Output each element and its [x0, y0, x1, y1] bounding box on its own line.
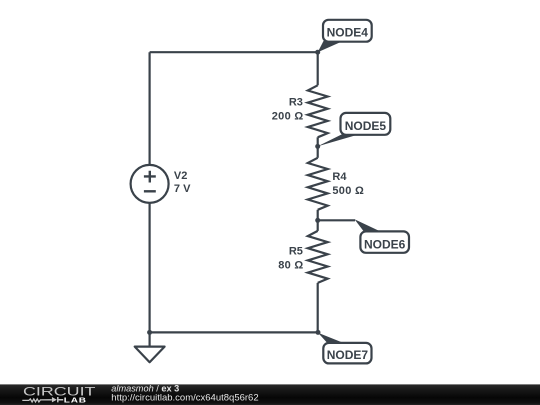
logo diode: [52, 397, 57, 402]
svg-text:R4: R4: [332, 171, 347, 183]
svg-text:500 Ω: 500 Ω: [332, 185, 364, 197]
svg-text:R5: R5: [289, 245, 303, 257]
svg-text:7 V: 7 V: [174, 183, 191, 195]
svg-text:NODE5: NODE5: [345, 119, 387, 133]
flag tail NODE5: [318, 134, 362, 147]
svg-text:NODE7: NODE7: [327, 348, 369, 362]
node flag box NODE7: [323, 343, 371, 364]
wire left vertical upper: [149, 52, 151, 165]
wire left vertical lower: [149, 203, 151, 333]
node D junction dot bottom right: [316, 330, 321, 335]
svg-text:NODE6: NODE6: [364, 238, 406, 252]
node C junction dot R4/R5: [315, 218, 320, 223]
wire R3 to node5 junction: [317, 137, 319, 158]
wire right top segment: [317, 52, 319, 85]
node E junction dot ground: [147, 330, 152, 335]
node flag box NODE4: [323, 20, 372, 42]
V2 plus sign: [144, 171, 156, 183]
svg-text:http://circuitlab.com/cx64ut8q: http://circuitlab.com/cx64ut8q56r62: [111, 392, 258, 403]
svg-text:LAB: LAB: [64, 395, 87, 404]
voltage source V2 circle: [131, 165, 169, 203]
wire top horizontal: [150, 51, 318, 53]
wire bottom horizontal: [150, 331, 318, 333]
flag tail NODE6: [355, 219, 382, 232]
node flag box NODE5: [341, 113, 391, 135]
resistor R4: [308, 158, 328, 210]
wire ground stub: [149, 332, 151, 346]
svg-text:V2: V2: [174, 170, 187, 182]
node A junction dot top: [315, 50, 320, 55]
node flag box NODE6: [360, 231, 409, 252]
svg-text:NODE4: NODE4: [327, 25, 369, 39]
wire R4 to node6 junction: [317, 210, 319, 231]
wire R5 to bottom: [317, 283, 319, 333]
svg-text:R3: R3: [289, 97, 303, 109]
flag tail NODE7: [318, 333, 346, 344]
svg-text:80 Ω: 80 Ω: [278, 259, 303, 271]
flag tail NODE4: [318, 41, 343, 52]
ground symbol: [135, 347, 165, 363]
wire node6 stub: [318, 219, 355, 221]
logo resistor zigzag: [22, 399, 52, 402]
resistor R3: [308, 85, 328, 137]
resistor R5: [308, 231, 328, 283]
node B junction dot R3/R4: [315, 144, 320, 149]
V2 minus sign: [144, 190, 156, 192]
svg-text:200 Ω: 200 Ω: [272, 110, 304, 122]
